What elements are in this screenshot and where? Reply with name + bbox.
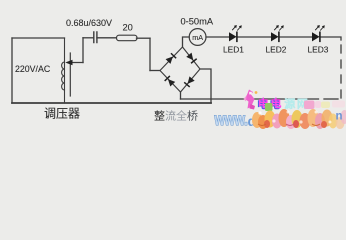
wire: bridge bottom vertex down (180, 92, 182, 99)
wire: bridge right vertex to bottom rail (200, 69, 211, 103)
wire: right edge vertical dashed (340, 45, 342, 98)
LED1 emission arrows (232, 26, 241, 30)
svg-text:www.: www. (214, 110, 248, 129)
capacitor C1 plates 0.68u/630V (94, 32, 97, 43)
svg-text:n: n (336, 111, 343, 123)
variac wiper arrow head (65, 60, 72, 65)
svg-text:调压器: 调压器 (44, 107, 80, 121)
svg-text:LED1: LED1 (223, 45, 244, 55)
svg-text:LED2: LED2 (266, 45, 287, 55)
wire: bottom rail from AC input to bridge right-vertex leg (12, 102, 211, 104)
wire: LED1 to LED2 (238, 36, 271, 38)
diode D2 bridge top-right edge (186, 53, 197, 64)
LED3 triangle and bar (312, 32, 320, 41)
diode D3 bridge bottom-left edge (164, 75, 175, 86)
LED1 triangle and bar (229, 32, 237, 41)
wire: DC return dashed end (324, 98, 338, 100)
wire: into bridge left vertex (150, 70, 160, 72)
ammeter M1 circle (189, 29, 206, 46)
transformer T1 variac coil line (64, 38, 66, 103)
wire: resistor to corner (137, 37, 151, 39)
transformer T1 coil bumps (62, 62, 65, 90)
wire: LED2 to LED3 (280, 36, 312, 38)
wire: DC return rail to right (181, 98, 319, 100)
wire: bridge top vertex to ammeter (183, 37, 190, 47)
watermark colourful letters band (252, 101, 346, 130)
wire: capacitor to resistor R1 (97, 37, 116, 39)
wire: left vertical (AC input left leg) (11, 38, 13, 103)
LED2 (271, 25, 284, 42)
watermark mascot (244, 90, 258, 110)
LED1 (229, 25, 242, 42)
wire: into capacitor C1 (83, 37, 94, 39)
LED2 triangle and bar (271, 32, 279, 41)
transformer T1 core bar (69, 53, 71, 96)
LED3 emission arrows (315, 26, 324, 30)
svg-text:mA: mA (192, 33, 203, 42)
wire: wiper output horizontal (68, 62, 83, 64)
wire: ammeter to LED1 (206, 36, 229, 38)
bridge rectifier diamond (160, 47, 200, 92)
diode D1 bridge top-left edge (165, 53, 176, 64)
LED3 (312, 25, 325, 42)
svg-text:0.68u/630V: 0.68u/630V (66, 18, 112, 28)
diode D4 bridge bottom-right edge (184, 76, 195, 87)
wire: vertical down to bridge AC-left (149, 38, 151, 70)
svg-text:220V/AC: 220V/AC (15, 64, 51, 74)
svg-text:LED3: LED3 (308, 45, 329, 55)
wire: LED3 to right edge corner (321, 37, 341, 40)
svg-text:整流全桥: 整流全桥 (154, 109, 198, 123)
svg-text:0-50mA: 0-50mA (181, 17, 214, 27)
LED2 emission arrows (274, 26, 283, 30)
wire: top horizontal to variac coil (12, 37, 65, 39)
wire: wiper vertical up to capacitor (82, 38, 84, 63)
svg-text:20: 20 (123, 23, 133, 33)
resistor R1 body (20 ohm) (117, 35, 138, 41)
